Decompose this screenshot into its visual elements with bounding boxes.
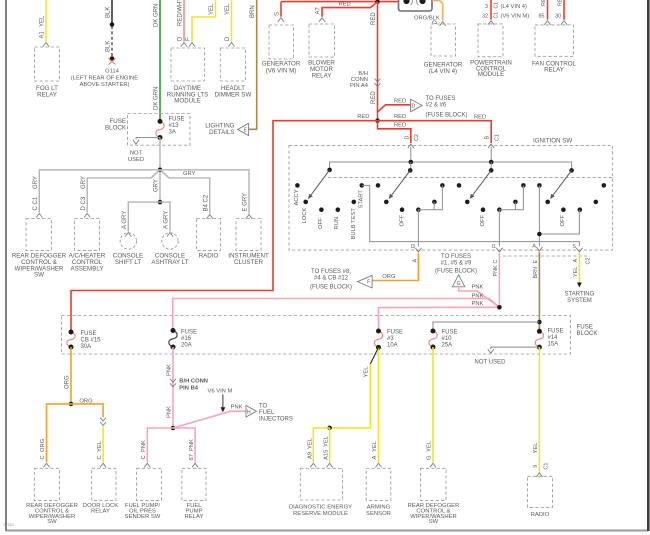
wire GRY to rear defogger pin C bbox=[39, 170, 160, 213]
wire DK GRN bbox=[159, 0, 161, 121]
svg-text:FUSE: FUSE bbox=[81, 331, 97, 337]
svg-text:RED: RED bbox=[394, 98, 406, 104]
fuse #13 3A bbox=[156, 121, 164, 137]
svg-text:ARMING: ARMING bbox=[367, 505, 391, 511]
svg-text:OFF: OFF bbox=[400, 214, 406, 226]
svg-text:I3: I3 bbox=[411, 244, 416, 250]
svg-text:32: 32 bbox=[482, 14, 488, 20]
junction ignition section 4 bbox=[537, 232, 542, 237]
svg-text:#10: #10 bbox=[442, 336, 453, 342]
svg-text:3A: 3A bbox=[169, 130, 176, 136]
svg-text:DK GRN: DK GRN bbox=[154, 4, 160, 27]
svg-text:E GRY: E GRY bbox=[243, 193, 249, 212]
ignition sw section 4 contact 1 bbox=[537, 183, 542, 188]
wire ORG to rear defogger sw bbox=[47, 404, 72, 462]
svg-text:RELAY: RELAY bbox=[91, 509, 110, 515]
triangle D to fuses 2 and 6 bbox=[411, 99, 423, 112]
svg-text:H: H bbox=[247, 409, 251, 415]
svg-text:STARTING: STARTING bbox=[565, 292, 595, 298]
svg-text:GRY: GRY bbox=[154, 179, 160, 192]
wire YEL fuse14 to radio bbox=[538, 347, 540, 472]
wire BRN pin A to fuse block bbox=[538, 252, 540, 331]
triangle F to fuses 8 4 cb12 bbox=[358, 275, 373, 288]
ignition sw section 3 contact 2 bbox=[465, 200, 470, 205]
svg-text:G114: G114 bbox=[105, 69, 120, 75]
pin A ignition bbox=[536, 247, 542, 251]
ignition sw coupling dashed line bbox=[328, 177, 612, 179]
svg-text:YEL: YEL bbox=[324, 435, 330, 447]
not used pin lower fuse block bbox=[491, 347, 540, 349]
svg-text:BRN: BRN bbox=[533, 267, 539, 278]
page border bottom bbox=[6, 530, 648, 532]
junction GRY at console feeds bbox=[158, 200, 163, 205]
wire PNK fuse3 riser bus bbox=[379, 307, 500, 331]
svg-text:BULB TEST: BULB TEST bbox=[351, 208, 357, 240]
svg-text:PIN B4: PIN B4 bbox=[179, 385, 198, 391]
ignition sw section 1 pivot bbox=[327, 168, 332, 173]
svg-text:A9: A9 bbox=[307, 452, 313, 459]
svg-text:A GRY: A GRY bbox=[122, 211, 128, 229]
svg-text:CLUSTER: CLUSTER bbox=[234, 259, 263, 266]
lighting details triangle E bbox=[238, 123, 249, 135]
rear defogger control sw box bbox=[26, 219, 52, 251]
svg-text:YEL: YEL bbox=[427, 440, 433, 452]
junction on BLK wire bbox=[110, 22, 115, 27]
headlt dimmer sw box bbox=[220, 48, 245, 81]
svg-text:A1: A1 bbox=[40, 30, 46, 38]
svg-text:D C3: D C3 bbox=[81, 196, 87, 210]
svg-text:A: A bbox=[532, 243, 536, 249]
wire ORG pin I3 to triangle F bbox=[372, 253, 418, 281]
connector dashed line below ignition sw bbox=[503, 255, 590, 257]
svg-text:B4 C2: B4 C2 bbox=[203, 194, 209, 211]
svg-text:RED: RED bbox=[558, 0, 564, 6]
pin C rear defogger sw bbox=[43, 463, 49, 467]
svg-text:3: 3 bbox=[485, 4, 488, 10]
svg-text:D: D bbox=[225, 36, 231, 41]
fuel pump oil pres sender box bbox=[137, 468, 162, 500]
ignition sw section 4 wiper bbox=[553, 170, 572, 195]
rear defogger control box (bottom right) bbox=[421, 468, 447, 500]
wire ORG/BLK to generator l4 bbox=[432, 1, 443, 21]
wire YEL fuse10 to rear defogger bbox=[432, 347, 434, 462]
blower motor relay box bbox=[309, 24, 335, 57]
svg-text:PNK: PNK bbox=[167, 364, 173, 376]
svg-text:START: START bbox=[359, 190, 365, 209]
ignition sw section 2 contact 1 bbox=[376, 183, 381, 188]
svg-text:PNK: PNK bbox=[231, 405, 243, 411]
svg-text:RED: RED bbox=[474, 114, 486, 120]
svg-text:A15: A15 bbox=[324, 450, 330, 460]
svg-text:D: D bbox=[178, 36, 184, 41]
ground splice G114 bbox=[110, 56, 115, 61]
svg-text:RED: RED bbox=[371, 91, 377, 104]
svg-text:RELAY: RELAY bbox=[544, 67, 564, 74]
wire ORG to door lock relay splice bbox=[71, 404, 103, 417]
svg-text:#2 & #6: #2 & #6 bbox=[426, 102, 447, 108]
svg-text:ORG: ORG bbox=[65, 375, 71, 389]
junction GRY at instrument cluster feed bbox=[158, 168, 163, 173]
svg-text:RED: RED bbox=[357, 114, 369, 120]
ignition sw section 1 contact 2 bbox=[303, 200, 308, 205]
instrument cluster box bbox=[236, 219, 261, 251]
a/c heater control assembly box bbox=[75, 219, 100, 251]
svg-text:NOT: NOT bbox=[130, 151, 143, 157]
svg-text:DETAILS: DETAILS bbox=[209, 129, 234, 136]
svg-text:FUSE: FUSE bbox=[442, 329, 458, 335]
svg-text:YEL: YEL bbox=[40, 15, 46, 27]
svg-text:I1: I1 bbox=[492, 244, 497, 250]
ignition sw section 3 contact 1 bbox=[457, 183, 462, 188]
ignition sw section 3 pivot bbox=[489, 168, 494, 173]
pin D drl bbox=[181, 43, 187, 47]
svg-text:RED: RED bbox=[394, 114, 406, 120]
svg-text:BLK: BLK bbox=[106, 41, 112, 52]
svg-text:C2: C2 bbox=[414, 134, 420, 141]
wire RED to generator v6 bbox=[280, 2, 282, 17]
svg-text:B: B bbox=[485, 136, 491, 140]
ignition sw section 2 wiper bbox=[392, 170, 411, 195]
pin G rear defogger bbox=[430, 463, 436, 467]
wire YEL fuse3 to arming sensor bbox=[378, 347, 380, 462]
pin F drl bbox=[189, 43, 195, 47]
svg-text:#4 & CB #12: #4 & CB #12 bbox=[314, 275, 349, 281]
ignition feed rail bbox=[330, 162, 572, 170]
wire RED to powertrain control module bbox=[490, 0, 492, 20]
wire PNK fuse16 riser bus bbox=[173, 299, 500, 331]
ignition section 3 contact tie to pin I1 bbox=[499, 185, 523, 209]
svg-text:GRY: GRY bbox=[33, 176, 39, 189]
svg-text:OFF: OFF bbox=[480, 214, 486, 226]
svg-text:SW: SW bbox=[429, 519, 439, 525]
svg-text:NOT USED: NOT USED bbox=[475, 360, 507, 366]
wire BLK dashed segment bbox=[111, 26, 113, 57]
svg-text:OFF: OFF bbox=[318, 217, 324, 229]
svg-text:PNK: PNK bbox=[167, 406, 173, 418]
radio box (left) bbox=[197, 219, 221, 251]
svg-text:ASHTRAY LT: ASHTRAY LT bbox=[151, 259, 188, 266]
svg-text:ABOVE STARTER): ABOVE STARTER) bbox=[79, 82, 129, 88]
pin D C3 a/c heater bbox=[84, 214, 90, 218]
svg-text:DIMMER SW: DIMMER SW bbox=[215, 91, 252, 98]
pin 85 fan relay bbox=[544, 21, 550, 25]
ignition sw section 3 wiper bbox=[473, 170, 492, 195]
svg-text:#16: #16 bbox=[181, 336, 192, 342]
svg-text:FUEL: FUEL bbox=[259, 410, 275, 416]
svg-text:SW: SW bbox=[34, 272, 44, 279]
wire GRY Y-split to second rail bbox=[87, 170, 160, 213]
svg-text:#3: #3 bbox=[387, 336, 394, 342]
wire PNK to fuel injectors bbox=[173, 411, 246, 428]
svg-text:SHIFT LT: SHIFT LT bbox=[115, 259, 141, 266]
pin C door lock relay bbox=[100, 463, 106, 467]
fog lt relay box bbox=[35, 47, 60, 81]
svg-text:15A: 15A bbox=[548, 342, 559, 348]
fuse3 black jog to second yellow bbox=[370, 347, 378, 364]
V6 VIN M arrow bbox=[222, 395, 224, 408]
pin A9 derm bbox=[310, 463, 316, 467]
wire RED to fan control relay 30 bbox=[563, 0, 565, 20]
fuel pump relay box bbox=[182, 468, 206, 500]
junction PNK fuel pump bbox=[171, 426, 176, 431]
generator v6 box bbox=[269, 25, 294, 59]
pin pcm bbox=[488, 21, 494, 25]
B/H conn pin A4 connector bbox=[375, 79, 381, 87]
svg-text:TO FUSES: TO FUSES bbox=[441, 254, 471, 260]
page border left bbox=[5, 0, 7, 531]
svg-text:G: G bbox=[427, 455, 433, 460]
wire RED branch to fuses 2 and 6 bbox=[378, 105, 411, 112]
svg-text:C: C bbox=[97, 455, 103, 459]
svg-text:LOCK: LOCK bbox=[302, 208, 308, 224]
wire BLK to G114 bbox=[111, 0, 113, 24]
wire PNK to fuel pump relay bbox=[173, 428, 195, 462]
svg-text:RED: RED bbox=[339, 2, 351, 8]
starting system arrow bbox=[577, 283, 582, 288]
daytime running lts module box bbox=[171, 48, 205, 81]
svg-text:C: C bbox=[141, 455, 147, 459]
svg-text:(V6 VIN M): (V6 VIN M) bbox=[266, 67, 297, 74]
pin C C1 rear defogger sw bbox=[36, 214, 42, 218]
ignition sw section 4 contact 4 bbox=[578, 207, 583, 212]
svg-text:PNK: PNK bbox=[493, 265, 499, 276]
svg-text:E: E bbox=[243, 127, 247, 133]
pin 9 C1 radio bbox=[536, 473, 542, 477]
svg-text:INJECTORS: INJECTORS bbox=[259, 417, 293, 423]
svg-text:C C1: C C1 bbox=[33, 196, 39, 210]
svg-text:V6 VIN M: V6 VIN M bbox=[208, 389, 233, 395]
svg-text:YEL: YEL bbox=[209, 3, 215, 15]
fuse #14 15A bbox=[535, 331, 543, 347]
svg-text:FUSE: FUSE bbox=[548, 328, 564, 334]
svg-text:RESERVE MODULE: RESERVE MODULE bbox=[293, 511, 348, 517]
ignition sw section 3 contact 5 bbox=[513, 200, 518, 205]
splice connector org/yel bbox=[100, 418, 106, 426]
pin I3 ignition bbox=[415, 248, 421, 252]
fuse #3 10A bbox=[374, 331, 382, 347]
svg-text:USED: USED bbox=[128, 157, 144, 163]
svg-text:25A: 25A bbox=[442, 343, 453, 349]
svg-text:TO FUSES #8,: TO FUSES #8, bbox=[311, 269, 351, 275]
svg-text:BLOCK: BLOCK bbox=[105, 125, 127, 132]
svg-text:YEL: YEL bbox=[533, 442, 539, 454]
svg-text:A: A bbox=[372, 456, 378, 460]
svg-text:FUSE: FUSE bbox=[181, 329, 197, 335]
wire B3 into rail bbox=[490, 147, 492, 162]
ignition sw section 2 contact 2 bbox=[384, 200, 389, 205]
wire RED bus top horizontal bbox=[281, 1, 398, 3]
svg-text:JV152: JV152 bbox=[3, 523, 14, 527]
wire YEL fuse3 to derm bbox=[330, 364, 371, 428]
wire GRY main vertical bbox=[159, 138, 161, 203]
wire RED to blower motor relay bbox=[322, 2, 378, 17]
generator l4 box bbox=[431, 24, 456, 56]
fuse #16 20A bbox=[169, 331, 177, 348]
wire PNK to fuel pump sender bbox=[147, 428, 173, 462]
svg-text:87: 87 bbox=[189, 454, 195, 460]
svg-text:MODULE: MODULE bbox=[174, 98, 200, 105]
wire YEL to headlt dimmer sw bbox=[231, 0, 233, 42]
ignition section 2 contact tie to pin I3 bbox=[418, 185, 442, 209]
powertrain control module box bbox=[478, 24, 503, 57]
svg-text:F: F bbox=[367, 280, 370, 286]
fuse CB #15 30A bbox=[67, 332, 75, 347]
svg-text:YEL: YEL bbox=[573, 267, 579, 277]
junction ORG bbox=[69, 402, 74, 407]
svg-text:10A: 10A bbox=[387, 343, 398, 349]
svg-text:C1: C1 bbox=[494, 12, 500, 19]
svg-text:B/H CONN: B/H CONN bbox=[179, 378, 208, 384]
wire BRN to lighting details bbox=[249, 0, 257, 129]
svg-text:A7: A7 bbox=[316, 6, 322, 14]
svg-text:C: C bbox=[40, 455, 46, 459]
svg-text:SENDER SW: SENDER SW bbox=[125, 514, 161, 520]
door lock relay box bbox=[92, 468, 116, 500]
svg-text:PIN A4: PIN A4 bbox=[350, 83, 369, 89]
wire rail stub B3 pivot bbox=[490, 162, 492, 170]
svg-text:YEL: YEL bbox=[363, 366, 369, 378]
svg-text:RADIO: RADIO bbox=[199, 253, 219, 260]
wire YEL to derm pin A9 bbox=[313, 428, 329, 462]
wire RED to B2 bbox=[378, 121, 411, 143]
ignition section 4 ties to pin A bbox=[538, 185, 540, 246]
svg-text:RELAY: RELAY bbox=[185, 514, 204, 520]
svg-text:C1: C1 bbox=[494, 2, 500, 9]
svg-text:SW: SW bbox=[47, 519, 57, 525]
svg-text:(FUSE BLOCK): (FUSE BLOCK) bbox=[426, 112, 468, 118]
svg-text:SYSTEM: SYSTEM bbox=[567, 298, 592, 304]
svg-text:GRY: GRY bbox=[183, 171, 196, 177]
fuse block lower box bbox=[62, 316, 571, 355]
pin A1 fog lt relay bbox=[43, 43, 49, 47]
svg-text:30: 30 bbox=[555, 14, 561, 20]
svg-text:TO FUSES: TO FUSES bbox=[426, 96, 456, 102]
junction PNK bbox=[497, 305, 502, 310]
svg-text:RELAY: RELAY bbox=[37, 91, 57, 98]
junction RED main bbox=[375, 118, 380, 123]
svg-text:#1, #5 & #9: #1, #5 & #9 bbox=[441, 261, 472, 267]
ignition sw section 3 contact 3 bbox=[481, 207, 486, 212]
battery junction block bbox=[399, 0, 433, 11]
svg-text:IGNITION SW: IGNITION SW bbox=[533, 137, 572, 144]
svg-text:RUN: RUN bbox=[334, 217, 340, 230]
pin D C2 ignition bbox=[408, 144, 414, 148]
wire PNK fuse16 down bbox=[172, 347, 174, 428]
wire YEL to derm pin A15 bbox=[329, 428, 331, 462]
junction rail B3 bbox=[489, 160, 494, 165]
svg-text:RELAY: RELAY bbox=[312, 73, 332, 80]
svg-text:F: F bbox=[186, 37, 192, 41]
svg-text:S: S bbox=[572, 244, 576, 250]
ignition sw section 3 contact 6 bbox=[521, 183, 526, 188]
page border right bbox=[647, 0, 650, 531]
radio box (bottom right) bbox=[527, 476, 552, 507]
svg-text:ASSEMBLY: ASSEMBLY bbox=[71, 265, 104, 272]
pin D generator l4 bbox=[440, 22, 446, 26]
fuse #10 25A bbox=[429, 331, 437, 347]
pin 87 fuel pump relay bbox=[192, 463, 198, 467]
diagnostic energy reserve module box bbox=[300, 468, 342, 500]
pin B C1 ignition bbox=[488, 144, 494, 148]
wire GRY to instrument cluster pin E bbox=[160, 170, 249, 214]
wire GRY to console ashtray lt bbox=[160, 202, 170, 231]
svg-text:C: C bbox=[493, 260, 499, 264]
svg-text:PNK: PNK bbox=[141, 440, 147, 452]
wire ORG fuse15 down bbox=[70, 347, 72, 404]
svg-text:RED: RED bbox=[394, 123, 406, 129]
svg-text:D: D bbox=[404, 136, 410, 140]
wire RED bus to B3 riser bbox=[378, 121, 492, 143]
console ashtray lt lamp bbox=[162, 233, 178, 249]
ignition sw section 4 contact 2 bbox=[545, 200, 550, 205]
svg-text:ORG: ORG bbox=[382, 274, 396, 280]
ignition sw section 1 contact 6 bbox=[360, 183, 365, 188]
rear defogger control sw box (bottom left) bbox=[34, 468, 59, 500]
triangle G to fuses 1 5 9 bbox=[452, 275, 464, 287]
svg-text:PNK: PNK bbox=[472, 293, 484, 299]
svg-text:PNK: PNK bbox=[472, 285, 484, 291]
pin S generator v6 bbox=[278, 18, 284, 22]
wire YEL to door lock relay bbox=[102, 427, 104, 463]
pin A15 derm bbox=[327, 463, 333, 467]
svg-text:9: 9 bbox=[533, 465, 539, 468]
pin C fuel pump sender bbox=[144, 463, 150, 467]
wire rail stub B2 pivot bbox=[410, 162, 412, 170]
pin S ignition bbox=[576, 248, 582, 252]
junction block terminal left bbox=[403, 0, 409, 4]
pin A console shift lt bbox=[125, 233, 131, 237]
svg-text:(FUSE BLOCK): (FUSE BLOCK) bbox=[435, 269, 477, 275]
svg-text:C1: C1 bbox=[543, 463, 549, 470]
wire RED to fan control relay 85 bbox=[547, 0, 549, 20]
svg-text:C2: C2 bbox=[585, 258, 591, 265]
ignition sw section 2 contact 6 bbox=[440, 183, 445, 188]
svg-text:BLOCK: BLOCK bbox=[577, 330, 599, 337]
ignition sw section 2 contact 3 bbox=[400, 207, 405, 212]
console shift lt lamp bbox=[120, 233, 136, 249]
junction block terminal right bbox=[419, 0, 425, 4]
svg-text:S: S bbox=[274, 12, 280, 16]
junction rail B2 bbox=[409, 160, 414, 165]
not used pin of fuse block upper bbox=[136, 138, 160, 140]
pin A arming sensor bbox=[375, 463, 381, 467]
svg-text:#14: #14 bbox=[548, 335, 559, 341]
svg-text:RADIO: RADIO bbox=[531, 512, 550, 518]
svg-text:RED: RED bbox=[541, 0, 547, 6]
svg-text:YEL: YEL bbox=[307, 437, 313, 449]
svg-text:PNK: PNK bbox=[189, 439, 195, 451]
wire YEL to fog lt relay bbox=[45, 0, 47, 42]
svg-text:YEL: YEL bbox=[225, 3, 231, 15]
pin B4 C2 radio bbox=[207, 215, 213, 219]
svg-text:(FUSE BLOCK): (FUSE BLOCK) bbox=[310, 284, 352, 290]
svg-text:RED/WHT: RED/WHT bbox=[178, 0, 184, 26]
svg-text:BLK: BLK bbox=[106, 7, 112, 18]
svg-text:(V6 VIN M): (V6 VIN M) bbox=[501, 14, 530, 20]
ignition sw section 4 contact 6 bbox=[602, 183, 607, 188]
svg-text:DK GRN: DK GRN bbox=[154, 87, 160, 110]
svg-text:MODULE: MODULE bbox=[478, 71, 504, 78]
pin I1 ignition bbox=[496, 248, 502, 252]
B/H conn pin B4 connector bbox=[170, 379, 176, 387]
svg-text:CB #15: CB #15 bbox=[81, 337, 102, 343]
pin D dimmer bbox=[228, 43, 234, 47]
svg-text:YEL: YEL bbox=[372, 440, 378, 452]
fuse block upper box bbox=[128, 114, 191, 146]
wire grey fuse10 feed bbox=[433, 322, 539, 331]
junction BRN fuse10 feed bbox=[537, 320, 542, 325]
wire B2 into rail bbox=[410, 147, 412, 162]
